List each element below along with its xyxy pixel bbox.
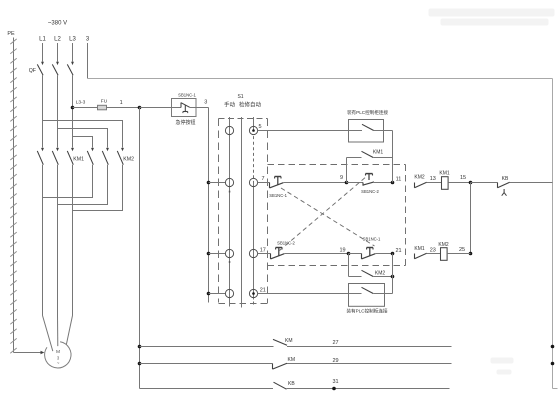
svg-text:S1: S1 [237, 94, 243, 100]
svg-text:检修自动: 检修自动 [239, 101, 262, 109]
svg-text:KM2: KM2 [438, 242, 449, 248]
svg-text:KM1: KM1 [414, 246, 425, 252]
svg-text:L3-3: L3-3 [76, 100, 86, 106]
svg-text:SB1NC-1: SB1NC-1 [178, 93, 196, 98]
svg-text:FU: FU [101, 98, 108, 104]
svg-text:KM1: KM1 [439, 171, 450, 177]
svg-text:5: 5 [258, 124, 261, 130]
svg-text:KM2: KM2 [414, 175, 425, 181]
svg-text:1: 1 [120, 100, 123, 106]
svg-text:21: 21 [395, 248, 401, 254]
svg-text:L1: L1 [39, 37, 46, 43]
svg-text:L3: L3 [69, 37, 76, 43]
svg-text:31: 31 [332, 379, 338, 385]
svg-text:3: 3 [86, 37, 90, 43]
svg-text:L2: L2 [54, 37, 61, 43]
svg-text:15: 15 [460, 175, 466, 181]
svg-text:SB1NC-1: SB1NC-1 [363, 237, 381, 242]
svg-text:21: 21 [260, 288, 266, 294]
svg-text:手动: 手动 [224, 101, 236, 109]
svg-text:KB: KB [502, 176, 509, 182]
svg-text:KM1: KM1 [373, 149, 384, 155]
svg-text:11: 11 [396, 177, 402, 183]
svg-text:27: 27 [332, 340, 338, 346]
svg-text:装有PLC控制柜连接: 装有PLC控制柜连接 [346, 308, 387, 315]
svg-text:装有PLC控制柜连接: 装有PLC控制柜连接 [347, 109, 388, 116]
svg-text:KB: KB [288, 381, 295, 387]
svg-text:25: 25 [459, 247, 465, 253]
svg-text:QF: QF [29, 68, 36, 74]
svg-text:23: 23 [430, 248, 436, 254]
svg-text:PE: PE [7, 31, 15, 37]
svg-text:M: M [56, 349, 60, 355]
svg-text:29: 29 [332, 358, 338, 364]
svg-text:KM: KM [285, 338, 293, 344]
svg-text:KM: KM [288, 357, 296, 363]
svg-text:KM2: KM2 [375, 270, 386, 276]
svg-text:~380 V: ~380 V [48, 21, 67, 27]
svg-text:7: 7 [261, 176, 264, 182]
svg-text:17: 17 [260, 248, 266, 254]
svg-text:SB1NC-2: SB1NC-2 [361, 189, 379, 194]
svg-text:9: 9 [340, 175, 343, 181]
svg-text:19: 19 [339, 247, 345, 253]
svg-text:13: 13 [430, 176, 436, 182]
svg-text:KM2: KM2 [123, 157, 134, 163]
svg-text:KM1: KM1 [73, 157, 84, 163]
svg-text:~: ~ [57, 361, 60, 366]
svg-text:3: 3 [204, 99, 207, 105]
svg-text:SB1NC-1: SB1NC-1 [269, 193, 287, 198]
svg-text:急停按钮: 急停按钮 [175, 119, 195, 126]
